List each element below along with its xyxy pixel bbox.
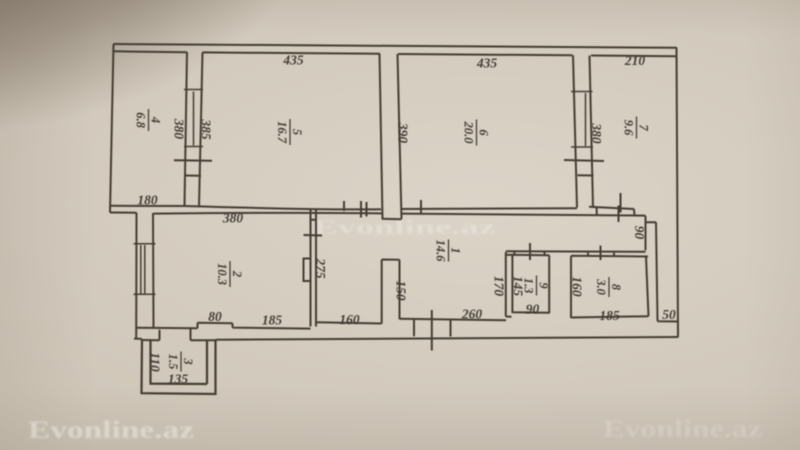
wall 150 shaft bbox=[382, 260, 400, 324]
room3 door jamb bbox=[159, 330, 161, 340]
svg-text:16.7: 16.7 bbox=[275, 121, 289, 144]
room3 inner walls bbox=[151, 340, 208, 384]
door jamb below room7 bottom wall bbox=[596, 207, 598, 215]
wire mid wall lower line bbox=[110, 213, 645, 216]
label room7 area fraction bbox=[622, 117, 651, 139]
label room6 area fraction bbox=[462, 120, 491, 146]
tick dimension mark on room6-room7 wall bbox=[564, 160, 604, 161]
label room4 area fraction bbox=[134, 109, 163, 131]
door cap on room4-room5 wall bbox=[185, 175, 201, 177]
wire outer bottom wall bbox=[216, 337, 679, 340]
svg-text:380: 380 bbox=[172, 118, 187, 140]
room9 walls bbox=[506, 252, 549, 317]
wall room5-room6 chimney bbox=[380, 54, 402, 219]
label room8 area fraction bbox=[594, 277, 623, 297]
wire room7 bottom wall bbox=[589, 207, 635, 215]
svg-text:185: 185 bbox=[599, 308, 620, 323]
svg-text:180: 180 bbox=[137, 193, 158, 208]
svg-text:7: 7 bbox=[637, 124, 651, 131]
svg-text:160: 160 bbox=[570, 276, 585, 297]
room3 top wall segments bbox=[142, 339, 216, 341]
wall room4-room5 left line bbox=[185, 52, 188, 206]
svg-text:10.3: 10.3 bbox=[215, 263, 229, 285]
tick room8 top bbox=[600, 246, 602, 260]
svg-text:9: 9 bbox=[537, 282, 551, 289]
svg-text:135: 135 bbox=[168, 372, 189, 387]
cap inside room2 right wall bbox=[311, 219, 317, 221]
wire room2 bottom wall with 80 niche bbox=[137, 323, 311, 329]
svg-text:1.3: 1.3 bbox=[522, 278, 536, 294]
svg-text:150: 150 bbox=[394, 280, 409, 301]
tick dimension mark on room4-room5 wall bbox=[174, 159, 212, 162]
wire step below room7 bbox=[646, 216, 679, 322]
wire right outer wall bbox=[677, 48, 679, 337]
svg-text:380: 380 bbox=[589, 122, 604, 144]
svg-text:14.6: 14.6 bbox=[434, 240, 448, 263]
label room5 area fraction bbox=[275, 119, 304, 145]
svg-text:435: 435 bbox=[282, 53, 304, 68]
tick room9 top bbox=[529, 243, 531, 260]
svg-text:6.8: 6.8 bbox=[134, 112, 148, 128]
room3 outer wall bbox=[142, 339, 216, 394]
window in room6-room7 wall bbox=[585, 93, 587, 146]
wire 160 zone bottom wall bbox=[316, 322, 382, 323]
wire mid wall upper line (room bottoms) bbox=[110, 206, 577, 210]
wire 260 bottom wall bbox=[400, 319, 507, 321]
svg-text:435: 435 bbox=[476, 56, 498, 71]
wire top outer wall bbox=[114, 44, 678, 48]
svg-text:6: 6 bbox=[477, 129, 491, 136]
svg-text:8: 8 bbox=[609, 284, 623, 291]
svg-text:185: 185 bbox=[262, 313, 283, 328]
svg-text:4: 4 bbox=[149, 116, 163, 123]
wall room2 left corridor bbox=[136, 213, 153, 339]
svg-text:210: 210 bbox=[624, 53, 646, 68]
svg-text:5: 5 bbox=[290, 129, 304, 135]
svg-text:1: 1 bbox=[449, 247, 463, 253]
svg-text:Evonline.az: Evonline.az bbox=[313, 215, 496, 239]
door jamb to room3 bbox=[190, 328, 192, 340]
svg-text:170: 170 bbox=[492, 276, 507, 297]
svg-text:390: 390 bbox=[396, 122, 411, 144]
svg-text:50: 50 bbox=[662, 307, 676, 322]
window in room2 left wall bbox=[141, 245, 145, 294]
niche on room2 right wall bbox=[304, 259, 311, 282]
svg-text:2: 2 bbox=[230, 270, 244, 277]
stub to room3 outer corner bbox=[134, 338, 142, 340]
wall room8 right bbox=[646, 257, 649, 317]
svg-text:3.0: 3.0 bbox=[594, 278, 608, 295]
tick long mark bbox=[431, 310, 433, 351]
svg-text:380: 380 bbox=[222, 211, 244, 226]
svg-text:385: 385 bbox=[199, 118, 214, 140]
svg-text:9.6: 9.6 bbox=[622, 120, 636, 136]
label room3 area fraction bbox=[166, 352, 195, 372]
svg-text:20.0: 20.0 bbox=[462, 121, 476, 145]
room8 walls bbox=[506, 251, 649, 318]
wall room6-room7 bbox=[573, 55, 593, 207]
wall room4-room5 right line bbox=[199, 52, 203, 206]
tick on room2 right wall bbox=[304, 234, 323, 237]
tick room7 bottom bbox=[620, 193, 622, 213]
balcony stubs bbox=[414, 320, 451, 337]
window in room4-room5 wall bbox=[193, 92, 195, 146]
svg-text:Evonline.az: Evonline.az bbox=[28, 417, 194, 444]
wire left outer wall bbox=[110, 44, 114, 213]
svg-text:3: 3 bbox=[181, 357, 195, 364]
wall room2 right (275 wall) bbox=[311, 210, 317, 327]
label room9 area fraction bbox=[522, 276, 551, 296]
door cap on room6-room7 wall bbox=[578, 174, 594, 176]
svg-text:110: 110 bbox=[148, 352, 163, 372]
svg-text:1.5: 1.5 bbox=[166, 354, 180, 370]
svg-text:160: 160 bbox=[339, 312, 360, 327]
svg-text:275: 275 bbox=[313, 257, 328, 279]
tick marks on mid wall bbox=[344, 200, 619, 222]
svg-text:Evonline.az: Evonline.az bbox=[603, 416, 762, 443]
wire top inner wall segments bbox=[114, 51, 676, 56]
label room2 area fraction bbox=[215, 261, 244, 287]
svg-text:260: 260 bbox=[461, 307, 483, 322]
label hallway1 area fraction bbox=[434, 240, 463, 263]
svg-text:90: 90 bbox=[526, 302, 540, 317]
svg-text:80: 80 bbox=[208, 309, 222, 324]
svg-text:90: 90 bbox=[632, 226, 647, 240]
